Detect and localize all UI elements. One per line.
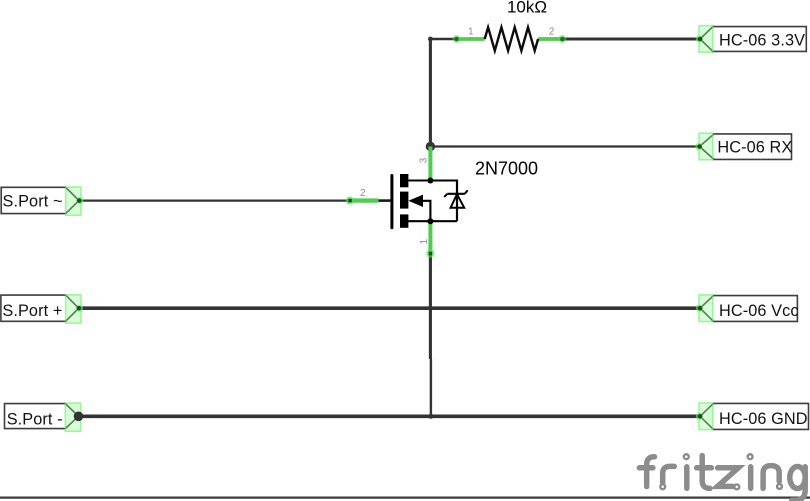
svg-text:1: 1 <box>468 27 474 38</box>
svg-text:S.Port +: S.Port + <box>2 302 62 320</box>
svg-text:HC-06 3.3V: HC-06 3.3V <box>719 32 805 50</box>
svg-text:S.Port ~: S.Port ~ <box>3 193 63 211</box>
svg-text:3: 3 <box>419 157 430 163</box>
svg-text:1: 1 <box>419 238 430 244</box>
svg-text:HC-06 GND: HC-06 GND <box>719 410 808 428</box>
svg-text:S.Port -: S.Port - <box>7 410 63 428</box>
svg-text:HC-06 Vcc: HC-06 Vcc <box>719 302 799 320</box>
svg-text:2: 2 <box>549 27 555 38</box>
svg-text:2: 2 <box>360 188 366 199</box>
svg-text:10kΩ: 10kΩ <box>507 0 547 17</box>
svg-text:2N7000: 2N7000 <box>475 158 538 178</box>
svg-text:HC-06 RX: HC-06 RX <box>717 138 792 156</box>
